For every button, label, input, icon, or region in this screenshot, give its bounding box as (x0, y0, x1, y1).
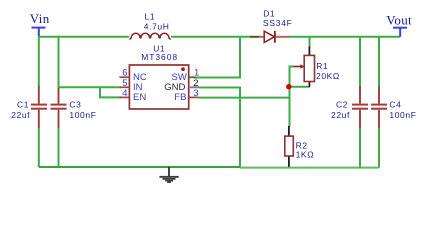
wire C4 bottom to ground rail (378, 128, 380, 168)
svg-text:SS34F: SS34F (263, 18, 293, 28)
svg-text:C1: C1 (17, 100, 29, 110)
svg-text:C4: C4 (389, 100, 401, 110)
svg-text:Vin: Vin (30, 11, 50, 26)
wire GND pin 2 down to ground rail (199, 88, 240, 168)
pin 6 NC stub (119, 68, 146, 83)
wire branch vertical to C3 (58, 36, 60, 88)
resistor R2 (285, 126, 314, 167)
svg-text:22uf: 22uf (11, 110, 30, 120)
junction node FB dot (286, 84, 291, 89)
svg-text:4.7uH: 4.7uH (144, 22, 170, 32)
capacitor C2 (331, 86, 368, 128)
pin 5 IN stub (119, 78, 142, 93)
wire C2 bottom to ground rail (359, 128, 361, 168)
wire SW pin 1 to diode anode node (194, 37, 240, 78)
pin 3 FB stub (174, 88, 198, 103)
op IC U1 MT3608 body (129, 43, 188, 109)
svg-text:Vout: Vout (386, 13, 412, 28)
wire top rail Vin to L1 (38, 36, 129, 38)
wire left vertical from Vin down to C1 (38, 34, 40, 87)
ground (159, 167, 178, 183)
wire C1 bottom to ground rail (38, 128, 40, 168)
capacitor C3 (51, 88, 97, 128)
wire D1 cathode to Vout (290, 36, 401, 38)
wire C2 top from output rail (359, 37, 361, 87)
svg-text:L1: L1 (145, 12, 156, 22)
wire feedback node to R1 bottom (290, 86, 310, 88)
svg-text:22uf: 22uf (331, 110, 350, 120)
wire EN jog vertical (99, 87, 101, 97)
capacitor C4 (371, 86, 417, 128)
svg-text:3: 3 (193, 88, 198, 99)
svg-text:FB: FB (174, 92, 186, 103)
potentiometer R1 (294, 47, 340, 88)
port Vout (386, 13, 412, 37)
svg-text:C3: C3 (69, 100, 81, 110)
wire FB pin 3 to feedback node (199, 97, 290, 99)
wire R1 top from output rail (309, 37, 311, 47)
svg-text:100nF: 100nF (69, 110, 96, 120)
pin 1 SW stub (172, 68, 200, 83)
svg-text:20KΩ: 20KΩ (316, 71, 340, 81)
capacitor C1 (11, 86, 47, 128)
svg-text:MT3608: MT3608 (141, 52, 178, 62)
svg-text:EN: EN (133, 92, 146, 103)
port Vin (30, 11, 50, 35)
svg-text:C2: C2 (336, 100, 348, 110)
wire R1 wiper to feedback node (290, 67, 295, 127)
svg-text:100nF: 100nF (389, 110, 416, 120)
svg-text:4: 4 (122, 88, 127, 99)
wire ground rail (39, 166, 379, 169)
wire EN pin 4 horizontal (99, 96, 121, 98)
wire L1 to D1 anode (171, 36, 250, 38)
svg-text:1KΩ: 1KΩ (296, 150, 315, 160)
pin 2 GND stub (164, 78, 199, 93)
wire C4 top from output rail (378, 37, 380, 87)
svg-text:R1: R1 (316, 61, 328, 71)
inductor L1 (129, 12, 170, 39)
diode D1 SS34F (250, 9, 293, 43)
wire IN pin 5 to Vin net (59, 86, 122, 88)
pin 4 EN stub (119, 88, 146, 103)
wire C3 bottom to ground rail (58, 128, 60, 168)
